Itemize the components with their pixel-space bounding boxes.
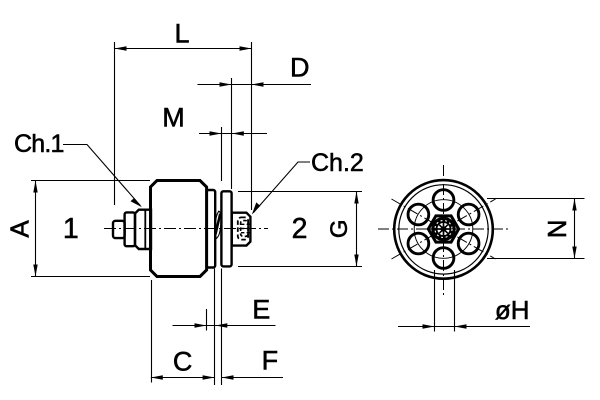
dimension OH [398,270,530,332]
stem thread detail [238,217,250,239]
svg-text:D: D [290,53,310,83]
front view centerlines [378,165,509,296]
svg-text:L: L [174,19,189,49]
dimension F [222,346,284,380]
washer disc1 [207,190,216,268]
front view outer circle [394,180,493,279]
body [151,181,207,277]
svg-text:øH: øH [495,295,530,325]
svg-text:1: 1 [63,213,79,245]
label 2 [292,213,308,245]
left thread stub side1 [113,221,125,238]
panel break curve [215,211,221,238]
leader Ch.2 [252,149,364,215]
dimension G [238,192,362,267]
leader Ch.1 [14,130,142,207]
left collar ring [125,212,135,246]
front view center hex [428,216,458,242]
dimension L [115,19,252,210]
washer disc2 [221,191,231,266]
dimension C [151,280,215,383]
centerline side view [104,228,268,230]
dimension E [173,295,276,331]
dimension D [198,53,312,189]
svg-text:G: G [326,219,353,238]
front view holes [408,190,479,269]
svg-text:E: E [252,295,270,325]
dimension N [487,199,585,259]
svg-text:C: C [173,347,193,377]
svg-text:Ch.1: Ch.1 [14,130,64,158]
svg-text:2: 2 [292,213,308,245]
dimension A [4,181,150,277]
dimension M [162,103,267,182]
svg-text:Ch.2: Ch.2 [311,149,364,177]
label 1 [63,213,79,245]
threaded stem side2 [232,213,251,246]
panel wall lines below [215,269,222,386]
svg-text:F: F [262,346,279,376]
left hex nut [135,210,151,249]
svg-text:A: A [4,220,34,238]
svg-text:N: N [542,219,572,238]
bolt circle [414,200,473,259]
svg-text:M: M [162,103,185,133]
